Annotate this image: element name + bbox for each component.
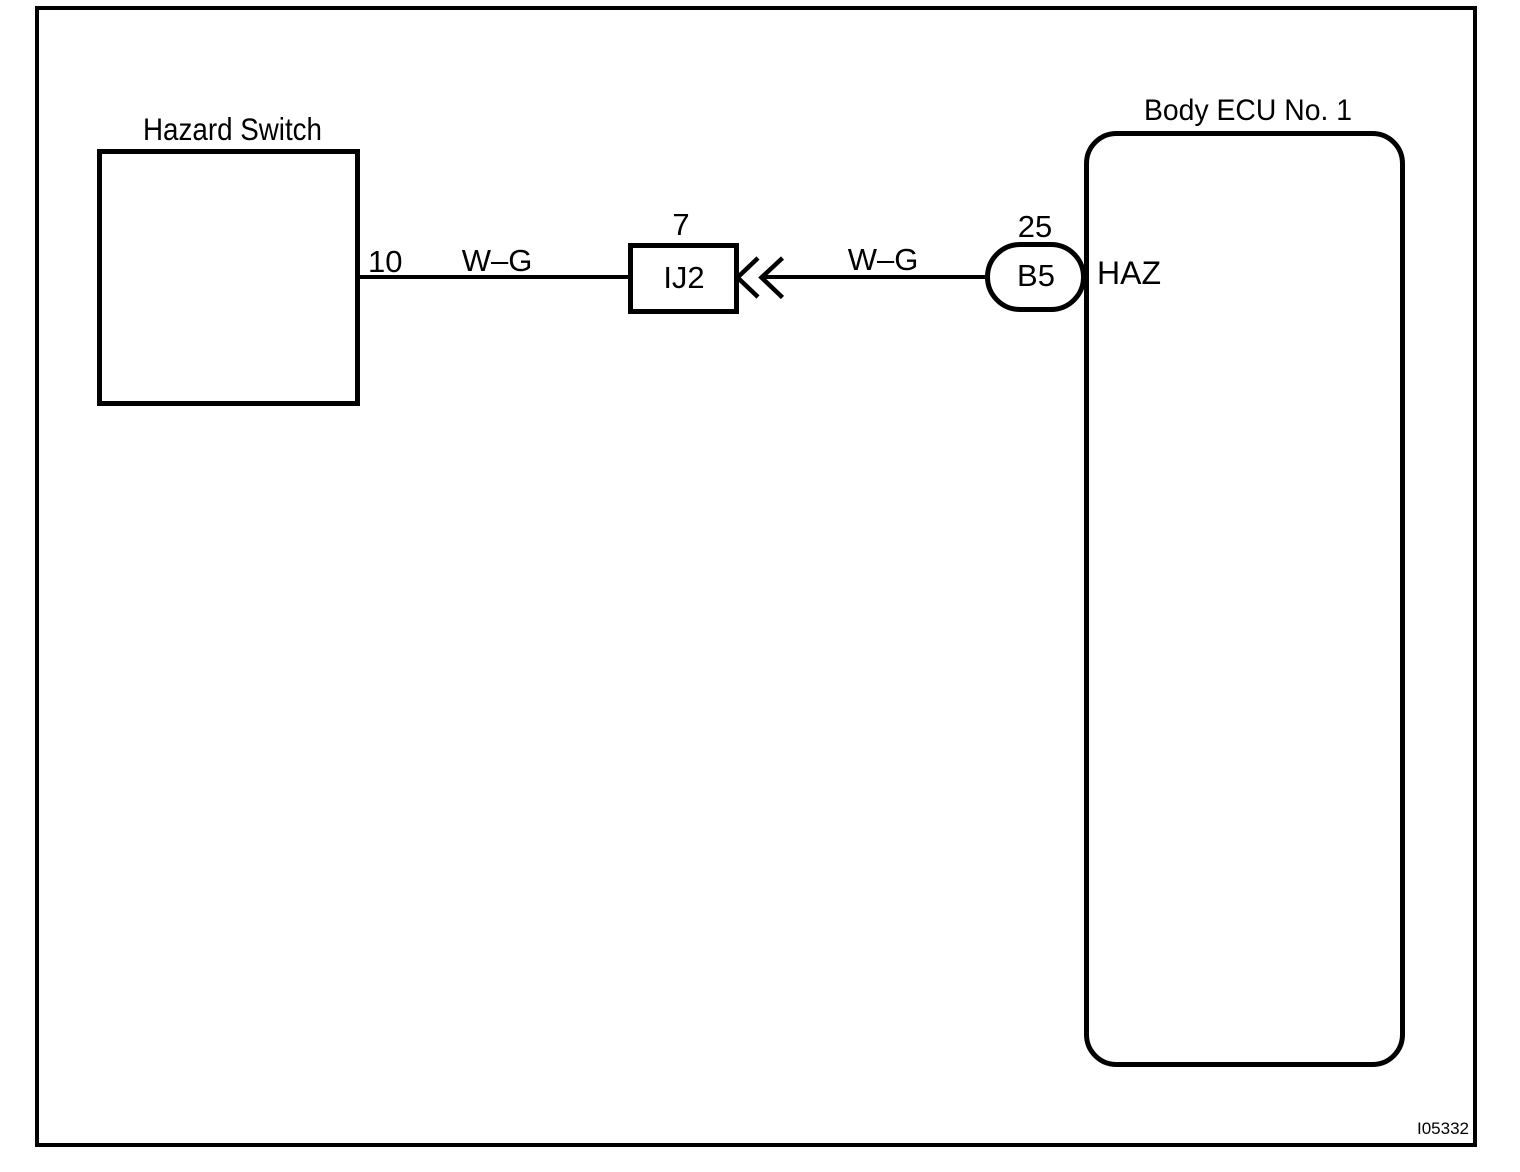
chevron arrow 1 [738, 258, 759, 297]
svg-text:B5: B5 [1017, 258, 1055, 293]
svg-text:IJ2: IJ2 [663, 260, 704, 295]
connector B5 [988, 245, 1084, 310]
svg-text:HAZ: HAZ [1097, 255, 1161, 291]
svg-text:7: 7 [672, 207, 689, 242]
junction connector IJ2 [631, 246, 737, 312]
svg-text:Hazard Switch: Hazard Switch [143, 111, 322, 147]
svg-text:Body ECU No. 1: Body ECU No. 1 [1144, 94, 1352, 127]
wire W-G from Hazard Switch pin 10 to junction IJ2 [360, 275, 630, 279]
svg-text:10: 10 [368, 244, 402, 279]
component Body ECU No. 1 box [1087, 134, 1403, 1065]
svg-text:I05332: I05332 [1417, 1119, 1469, 1138]
wire W-G from chevron to connector B5 [762, 275, 985, 279]
svg-text:25: 25 [1018, 209, 1052, 244]
chevron arrow 2 [762, 258, 783, 298]
svg-text:W–G: W–G [848, 242, 919, 277]
svg-text:W–G: W–G [462, 243, 533, 278]
component Hazard Switch box [100, 152, 358, 404]
